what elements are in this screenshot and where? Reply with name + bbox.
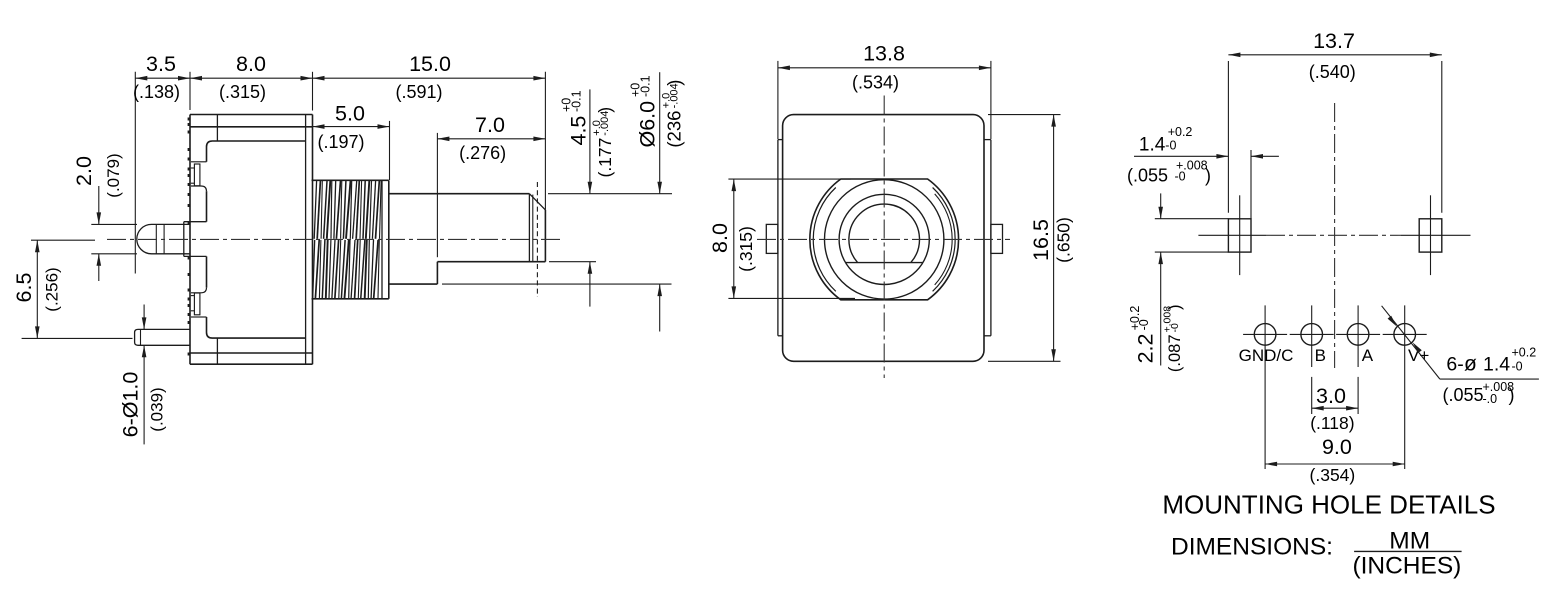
mounting view: terminal holes [1254, 324, 1276, 346]
dimension 6.5 [31, 239, 95, 241]
svg-text:(.177: (.177 [595, 138, 615, 178]
dimension 6-dia1.0 (terminal pins) [143, 305, 145, 330]
left view: shaft flat hidden line [536, 182, 538, 297]
left view: shaft outline [389, 193, 530, 195]
svg-text:(236: (236 [663, 111, 684, 148]
svg-text:B: B [1315, 346, 1326, 365]
left view: centre pin slot [184, 221, 207, 223]
svg-text:+.008: +.008 [1176, 159, 1208, 173]
svg-text:(.315): (.315) [736, 226, 756, 272]
front view: left pin bump [766, 224, 778, 253]
svg-text:6-Ø1.0: 6-Ø1.0 [119, 372, 143, 438]
svg-text:-.0: -.0 [1483, 392, 1498, 406]
svg-text:2.0: 2.0 [72, 156, 96, 186]
svg-text:(INCHES): (INCHES) [1352, 553, 1461, 580]
svg-text:8.0: 8.0 [708, 223, 732, 253]
svg-text:-0: -0 [1512, 360, 1523, 374]
svg-text:1.4: 1.4 [1483, 354, 1510, 376]
inch (.177 +.0/-.004) [591, 107, 615, 178]
dimension 1.4 (slot width) [1134, 155, 1228, 157]
front view: left side plate [777, 140, 779, 336]
svg-text:ø: ø [1464, 353, 1477, 376]
left view: centreline [107, 238, 561, 240]
svg-text:): ) [595, 107, 615, 113]
svg-text:(.039): (.039) [148, 387, 167, 431]
svg-text:1.4: 1.4 [1139, 135, 1166, 156]
dimension 16.5 [988, 114, 1061, 116]
svg-text:(.256): (.256) [43, 267, 62, 311]
svg-text:DIMENSIONS:: DIMENSIONS: [1171, 533, 1333, 560]
svg-text:MOUNTING HOLE DETAILS: MOUNTING HOLE DETAILS [1162, 490, 1495, 520]
svg-text:2.2: 2.2 [1134, 334, 1158, 364]
dimension 13.8 [777, 61, 779, 139]
dimension dia 6.0 +0/-0.1 [659, 72, 661, 194]
left view: encoder body side outline [190, 114, 313, 116]
front view: right pin bump [991, 224, 1003, 253]
svg-text:Ø6.0: Ø6.0 [636, 101, 660, 148]
svg-text:): ) [1166, 305, 1184, 311]
svg-text:(.138): (.138) [133, 82, 180, 102]
svg-text:(.315): (.315) [219, 82, 266, 102]
mounting view: right square hole [1419, 219, 1442, 252]
front view: bushing outer profile with flats [810, 179, 959, 300]
front view: shaft dia 6 circle [839, 194, 929, 284]
dimension 9.0 [1265, 463, 1405, 465]
svg-text:(.055: (.055 [1443, 385, 1484, 405]
left view: lower mounting tab [191, 316, 207, 318]
left view: thread hatch lines [314, 181, 316, 239]
svg-text:-0.1: -0.1 [570, 90, 584, 112]
svg-text:3.0: 3.0 [1316, 384, 1346, 408]
svg-text:-0: -0 [1169, 323, 1181, 332]
mounting view: vertical centreline [1334, 103, 1336, 368]
svg-text:(.079): (.079) [104, 153, 123, 197]
mounting view: left square hole [1228, 219, 1251, 252]
svg-text:(.540): (.540) [1309, 62, 1356, 82]
svg-text:(.354): (.354) [1310, 465, 1356, 485]
front view: shaft chamfer arc + flat chord [849, 204, 920, 263]
svg-text:): ) [1205, 166, 1211, 186]
svg-text:): ) [1509, 385, 1515, 405]
svg-text:6-: 6- [1446, 354, 1463, 376]
left view: bottom terminal pin [135, 329, 140, 345]
svg-text:GND/C: GND/C [1239, 346, 1294, 365]
left view: terminal ticks on back edge [188, 118, 191, 121]
svg-text:(.197): (.197) [318, 132, 365, 152]
svg-text:7.0: 7.0 [475, 113, 505, 137]
left view: centre pivot pin [137, 224, 152, 253]
dimension 7.0 [436, 133, 438, 257]
svg-text:(.276): (.276) [459, 143, 506, 163]
svg-text:3.5: 3.5 [146, 52, 176, 76]
svg-text:4.5: 4.5 [567, 116, 591, 146]
dimension 3.5 / 8.0 / 15.0 chain [134, 72, 136, 274]
inch (236 +.0/-.004) [660, 80, 684, 148]
svg-text:13.7: 13.7 [1313, 29, 1355, 53]
mounting view: hole centre verticals [1264, 305, 1266, 469]
leader 6-dia1.4 [1382, 306, 1440, 379]
dimension 13.7 [1227, 61, 1229, 213]
svg-text:8.0: 8.0 [236, 52, 266, 76]
dimension 3.0 [1312, 407, 1358, 409]
svg-text:5.0: 5.0 [335, 102, 365, 126]
left view: upper mounting tab [191, 161, 207, 163]
svg-text:(.534): (.534) [852, 73, 899, 93]
front view: right side plate [990, 140, 992, 336]
svg-text:+0.2: +0.2 [1512, 346, 1537, 360]
svg-text:16.5: 16.5 [1029, 219, 1053, 261]
left view: threaded bushing outline [312, 179, 389, 181]
svg-text:(.055: (.055 [1127, 166, 1168, 186]
svg-text:(.650): (.650) [1054, 217, 1074, 263]
front view: thread side arcs [933, 188, 956, 292]
dimension 5.0 [389, 121, 391, 180]
svg-text:(.118): (.118) [1310, 413, 1354, 433]
svg-text:6.5: 6.5 [12, 273, 36, 303]
svg-text:-0: -0 [1165, 139, 1176, 153]
dimension 8.0 (bushing flats) [728, 178, 850, 180]
svg-text:15.0: 15.0 [409, 52, 451, 76]
svg-text:-0: -0 [1137, 319, 1151, 330]
svg-text:MM: MM [1389, 528, 1430, 555]
svg-text:): ) [663, 80, 684, 86]
svg-text:A: A [1362, 346, 1374, 365]
dimension 2.0 (pin dia) [91, 223, 137, 225]
svg-text:9.0: 9.0 [1322, 435, 1352, 459]
svg-text:(.591): (.591) [395, 82, 442, 102]
front view: body rounded rectangle [783, 115, 984, 362]
svg-text:(.087: (.087 [1166, 334, 1184, 372]
mounting view: square crosshairs [1239, 195, 1241, 275]
svg-text:-.004: -.004 [668, 83, 680, 108]
front view: centrelines [757, 238, 1010, 240]
dimension 4.5 +0/-0.1 (shaft flat) [589, 89, 591, 193]
front view: bushing circle [825, 180, 944, 299]
svg-text:-.004: -.004 [599, 111, 611, 136]
dimension 2.2 (slot height) [1155, 218, 1229, 220]
svg-text:13.8: 13.8 [863, 42, 905, 66]
svg-text:-0.1: -0.1 [639, 75, 653, 97]
svg-text:+0.2: +0.2 [1168, 125, 1193, 139]
